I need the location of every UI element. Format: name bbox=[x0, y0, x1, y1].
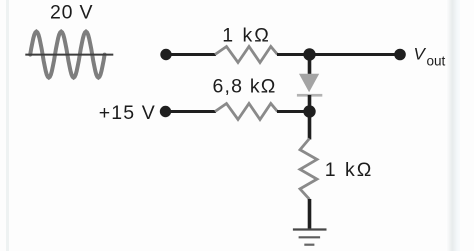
resistor R2 6,8 kOhm (horizontal zigzag) bbox=[215, 104, 278, 120]
svg-text:+15 V: +15 V bbox=[99, 102, 156, 124]
AC source axis line bbox=[25, 54, 113, 56]
node dot (+15V terminal) bbox=[160, 106, 171, 117]
svg-text:1 kΩ: 1 kΩ bbox=[325, 159, 374, 181]
wire (+15V terminal to resistor R2) bbox=[166, 110, 217, 113]
svg-text:1 kΩ: 1 kΩ bbox=[222, 25, 271, 47]
wire (top left: input node to resistor R1) bbox=[166, 53, 216, 56]
wire (node B down to resistor R3) bbox=[308, 112, 312, 140]
diode D1 cathode bar bbox=[297, 94, 322, 97]
node dot (top-left input) bbox=[160, 49, 171, 60]
node dot (vout terminal) bbox=[394, 49, 406, 61]
ground bbox=[293, 230, 327, 245]
wire (diode branch: node A down to diode) bbox=[308, 55, 312, 77]
resistor R1 1 kOhm (horizontal zigzag) bbox=[215, 47, 278, 63]
resistor R3 1 kOhm (vertical zigzag) bbox=[300, 139, 317, 200]
svg-text:20 V: 20 V bbox=[50, 2, 93, 24]
wire (top: resistor R1 to vout) bbox=[277, 53, 400, 56]
wire (resistor R3 to ground) bbox=[308, 199, 312, 230]
junction dot (top node A) bbox=[303, 48, 315, 60]
svg-text:out: out bbox=[427, 53, 446, 68]
diode D1 (anode triangle, pointing down) bbox=[299, 74, 319, 93]
AC source sine wave bbox=[30, 32, 104, 78]
wire (resistor R2 to node B) bbox=[277, 110, 310, 113]
svg-text:6,8 kΩ: 6,8 kΩ bbox=[213, 76, 277, 98]
svg-text:V: V bbox=[414, 45, 427, 64]
wire (diode cathode to node B) bbox=[308, 95, 312, 112]
left page edge bbox=[6, 0, 9, 251]
right page edge bbox=[446, 0, 460, 251]
junction dot (node B) bbox=[303, 105, 315, 117]
